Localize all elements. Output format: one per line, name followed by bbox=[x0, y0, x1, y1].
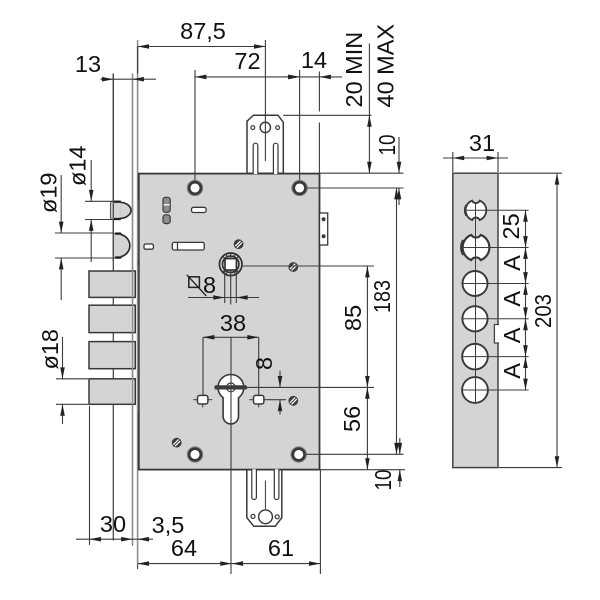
top strap small holes bbox=[251, 126, 255, 130]
svg-text:10: 10 bbox=[374, 135, 400, 156]
svg-text:72: 72 bbox=[234, 48, 260, 74]
svg-text:ø19: ø19 bbox=[36, 173, 62, 214]
cylinder fixing hole left bbox=[193, 395, 212, 407]
deadbolt 1 bbox=[89, 271, 135, 297]
svg-text:40 MAX: 40 MAX bbox=[373, 24, 399, 108]
svg-text:20 MIN: 20 MIN bbox=[341, 32, 367, 108]
dimension o18 bbox=[37, 329, 65, 424]
latch pin 1 (o14) bbox=[111, 201, 132, 219]
svg-text:8: 8 bbox=[251, 357, 277, 370]
bottom mounting strap bbox=[247, 469, 282, 526]
top strap center hole bbox=[260, 122, 270, 132]
top mounting strap bbox=[247, 115, 283, 174]
strike plate notch bbox=[494, 325, 499, 344]
auxiliary latch on right edge bbox=[320, 213, 328, 245]
screw hole bottom-right bbox=[291, 447, 306, 462]
slotted screw right of cylinder bbox=[288, 396, 298, 406]
svg-text:ø18: ø18 bbox=[37, 329, 63, 370]
small slot bbox=[192, 207, 207, 212]
svg-text:A: A bbox=[499, 255, 525, 271]
dimension 10 bottom bbox=[370, 438, 402, 491]
svg-text:14: 14 bbox=[301, 47, 327, 73]
dimension 14 bbox=[286, 47, 342, 79]
bottom strap center hole bbox=[259, 510, 273, 524]
svg-text:87,5: 87,5 bbox=[180, 18, 226, 44]
deadbolt 3 bbox=[89, 342, 135, 369]
dimension 31 bbox=[443, 130, 508, 160]
svg-text:ø14: ø14 bbox=[65, 146, 91, 187]
svg-text:183: 183 bbox=[369, 280, 395, 313]
dimension o19 bbox=[36, 173, 64, 301]
strike plate (right view) bbox=[453, 173, 499, 467]
svg-text:A: A bbox=[499, 291, 525, 307]
svg-text:56: 56 bbox=[339, 406, 365, 432]
spindle hub with 8mm square bbox=[219, 253, 242, 276]
dimension 72 bbox=[195, 48, 300, 79]
strike plate hole 3 bbox=[463, 271, 488, 296]
dimension 8 cylinder bbox=[251, 357, 282, 415]
plate lines over pins bbox=[113, 199, 137, 261]
extension lines main view bbox=[55, 40, 562, 574]
long slot with slider bbox=[172, 242, 204, 250]
deadbolt 2 bbox=[89, 305, 135, 332]
bottom strap centerline bbox=[264, 481, 266, 510]
dimension 10 top bbox=[374, 135, 401, 206]
bottom strap right slot bbox=[274, 469, 279, 499]
dimension 61 bbox=[232, 535, 321, 566]
bottom strap small holes bbox=[251, 514, 255, 518]
svg-text:8: 8 bbox=[203, 272, 216, 298]
dimension 13 bbox=[75, 51, 156, 82]
screw hole top-right bbox=[292, 180, 307, 195]
screw hole top-left bbox=[187, 180, 202, 195]
dimension 85 bbox=[340, 266, 370, 387]
top strap left slot bbox=[253, 143, 258, 174]
slotted screw bottom-left bbox=[172, 438, 182, 448]
svg-text:85: 85 bbox=[340, 305, 366, 331]
svg-text:64: 64 bbox=[171, 535, 197, 561]
strike plate hole 2 (notched) bbox=[463, 235, 490, 260]
plate edge lines over bolts bbox=[132, 265, 134, 412]
strike plate hole 6 bbox=[462, 377, 488, 403]
dimension 30 bbox=[76, 511, 153, 542]
faceplate (3.5mm side view) bbox=[137, 40, 139, 565]
screw hole bottom-left bbox=[187, 447, 202, 462]
svg-text:61: 61 bbox=[268, 535, 294, 561]
deadbolt 4 bbox=[89, 379, 135, 405]
reinforcement plate (13mm side view) bbox=[113, 74, 132, 545]
dimension 87,5 bbox=[138, 18, 266, 49]
dimension 25 and A chain bbox=[498, 210, 528, 390]
svg-text:25: 25 bbox=[498, 213, 524, 239]
svg-text:38: 38 bbox=[220, 310, 246, 336]
dimension 20 MIN / 40 MAX bbox=[341, 24, 399, 174]
strike plate hole 1 (notched) bbox=[466, 201, 487, 220]
dimension 38 bbox=[203, 310, 259, 340]
dimension o14 bbox=[65, 146, 94, 263]
dimension 64 bbox=[138, 535, 232, 566]
svg-text:30: 30 bbox=[100, 511, 126, 537]
svg-text:A: A bbox=[499, 363, 525, 379]
bottom strap left slot bbox=[252, 469, 257, 499]
svg-text:10: 10 bbox=[370, 470, 396, 491]
dimension square 8 bbox=[187, 272, 259, 300]
dimension 183 bbox=[369, 188, 399, 454]
small slot at left edge bbox=[144, 244, 153, 249]
slotted screw right of spindle bbox=[288, 262, 298, 272]
svg-text:31: 31 bbox=[469, 130, 495, 156]
strike plate hole 4 bbox=[462, 306, 487, 331]
dimension 203 bbox=[530, 173, 559, 467]
svg-text:13: 13 bbox=[75, 51, 101, 77]
lock body case bbox=[139, 174, 320, 470]
slotted screw near spindle bbox=[234, 239, 244, 249]
strike plate centerlines bbox=[462, 203, 528, 404]
slider bars top-left bbox=[163, 197, 170, 223]
svg-text:203: 203 bbox=[530, 294, 556, 328]
svg-text:A: A bbox=[499, 327, 525, 343]
dimension 56 bbox=[339, 387, 370, 469]
euro cylinder profile bbox=[214, 375, 247, 424]
top strap right slot bbox=[273, 143, 278, 174]
latch pin 2 (o19) bbox=[113, 233, 129, 258]
cylinder fixing hole right bbox=[249, 395, 264, 407]
dimension 3,5 bbox=[138, 512, 185, 542]
strike plate hole 5 bbox=[462, 344, 488, 370]
